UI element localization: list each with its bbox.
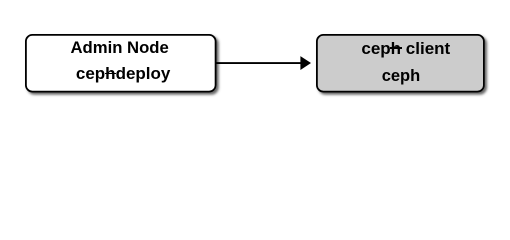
label "ceph-client" text <box>361 39 450 59</box>
node ceph-client (grey rounded box) <box>317 35 484 92</box>
wire: arrow shaft from Admin Node to ceph-client <box>216 62 301 64</box>
label "Admin Node" <box>71 38 169 58</box>
label "ceph-client" dash stroke over the h <box>390 47 402 49</box>
label "ceph" <box>382 66 421 86</box>
node Admin Node (white rounded box) <box>26 35 216 92</box>
label "ceph-deploy" text <box>76 64 170 84</box>
label "ceph-deploy" dash stroke over the h <box>105 73 117 75</box>
arrowhead <box>300 56 311 70</box>
